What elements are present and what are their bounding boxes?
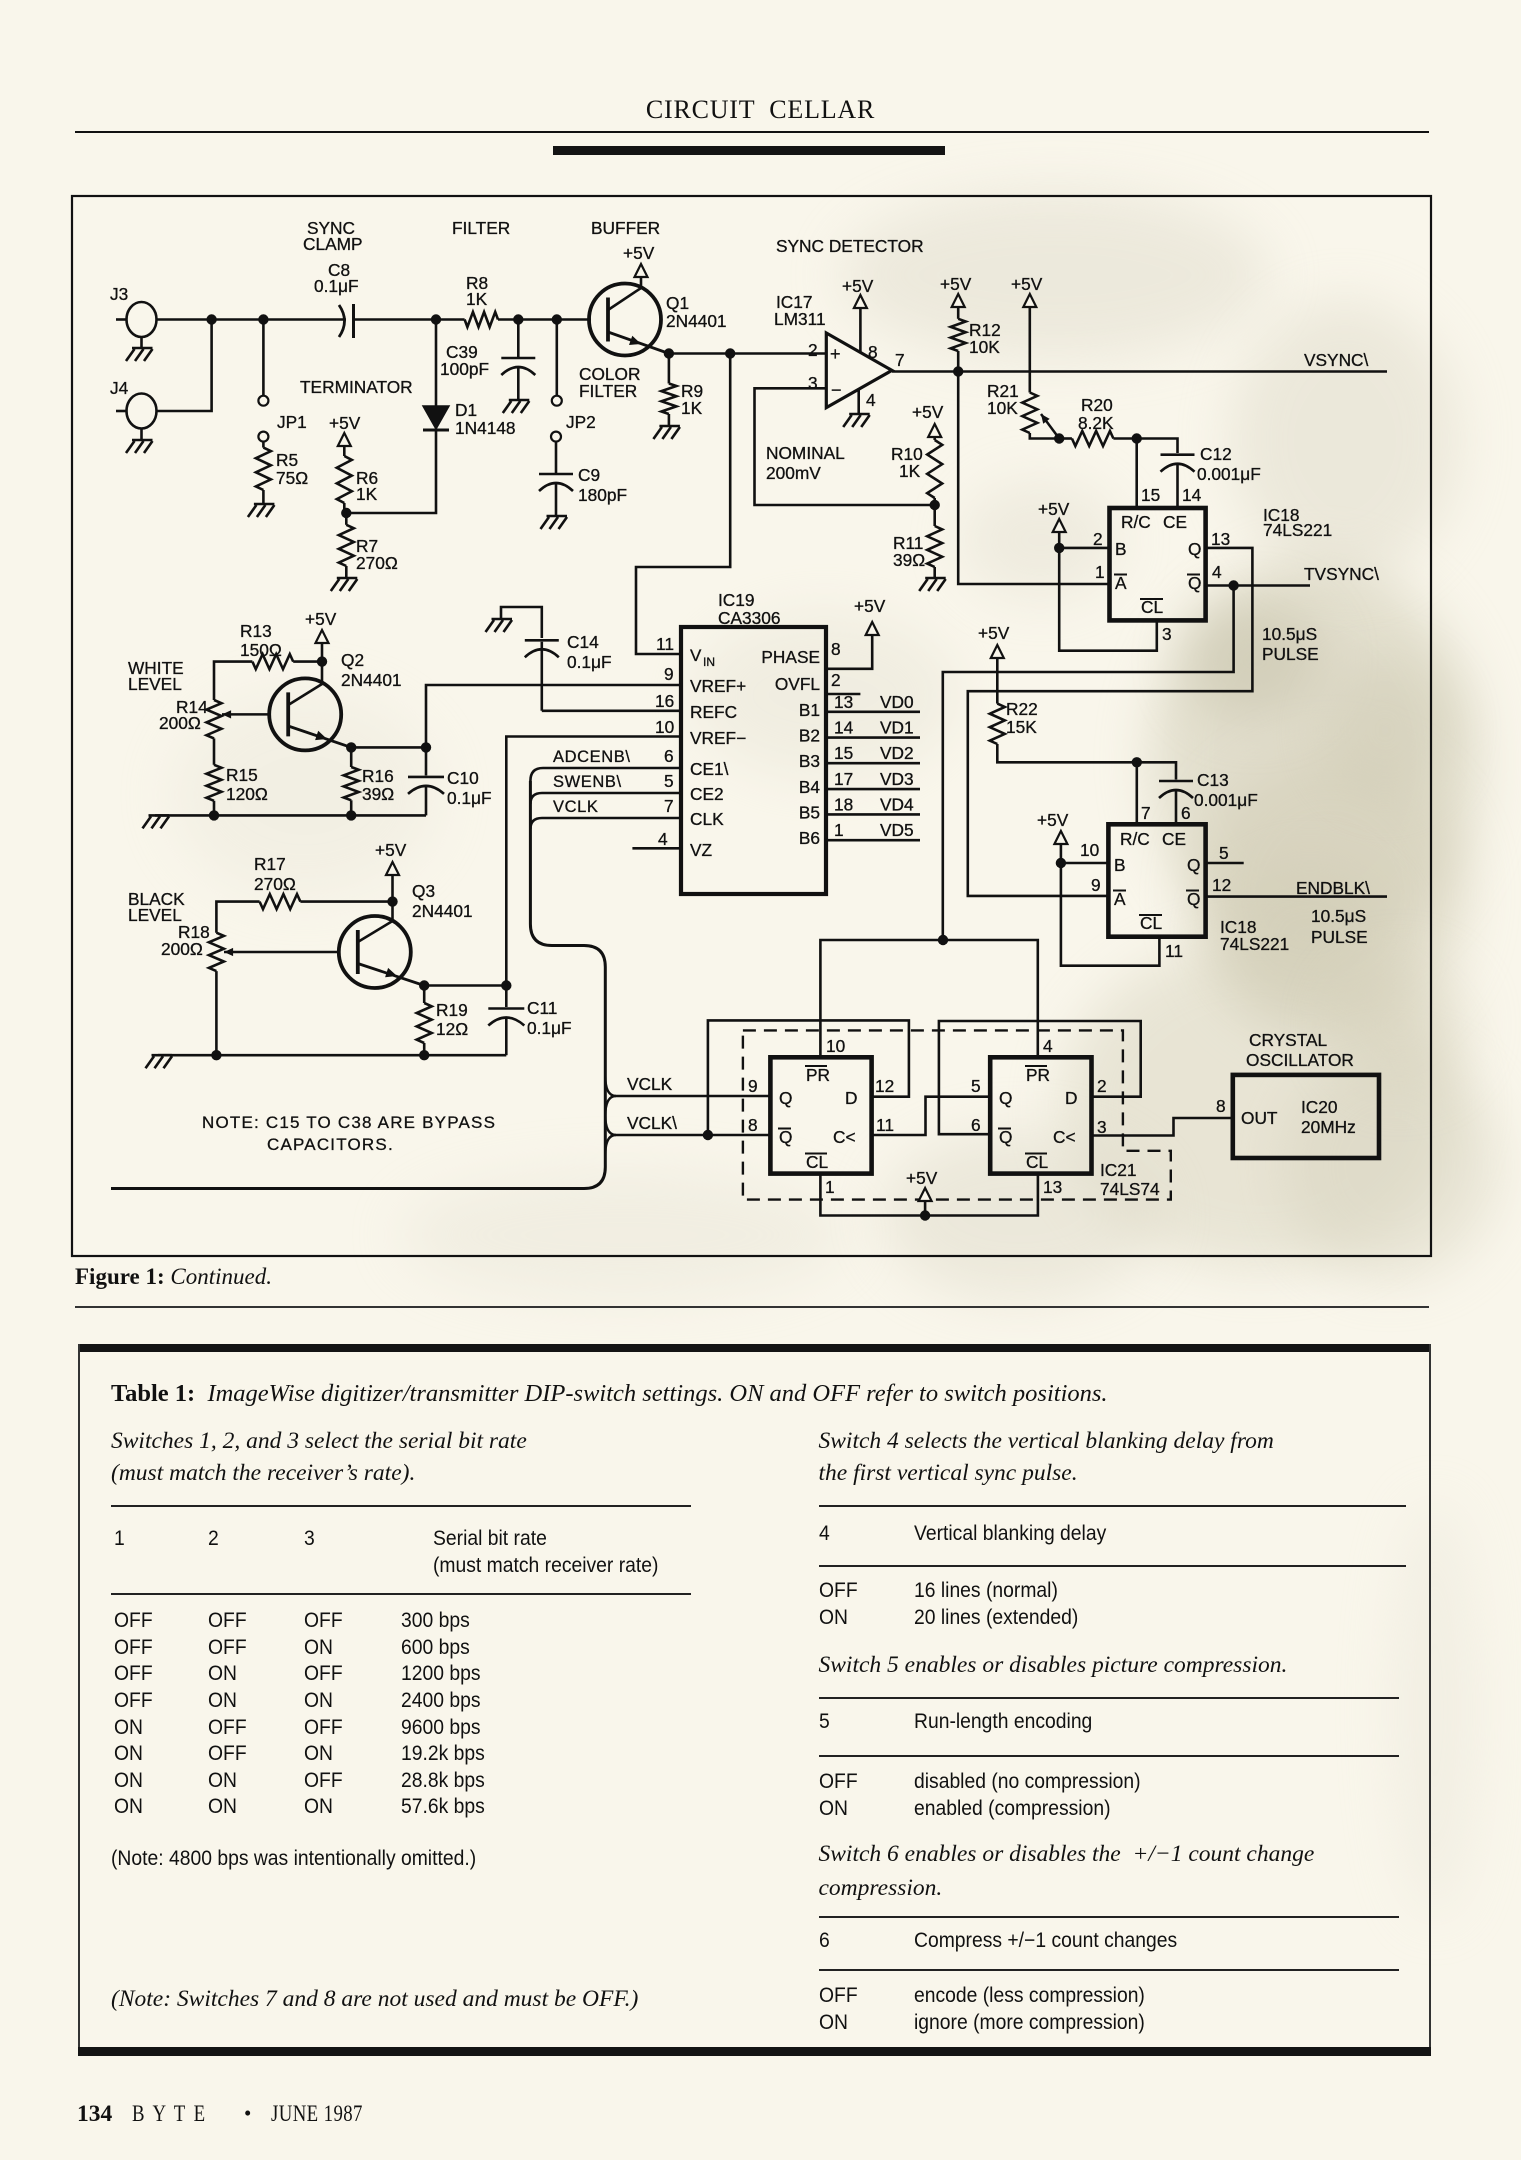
flip-flop IC21a xyxy=(770,1057,871,1173)
svg-text:7: 7 xyxy=(664,796,674,816)
wire R8 to Q1 base xyxy=(498,318,591,321)
svg-text:R/C: R/C xyxy=(1120,829,1150,849)
svg-text:4: 4 xyxy=(658,829,668,849)
svg-text:+5V: +5V xyxy=(623,243,655,263)
potentiometer R18 xyxy=(209,933,224,971)
svg-text:J3: J3 xyxy=(110,284,128,304)
svg-text:10K: 10K xyxy=(969,337,1000,357)
wire VCLK-bar branch to flip-flop xyxy=(605,1115,770,1135)
capacitor C11 xyxy=(505,986,508,1008)
R14 wiper arrow to Q2 base xyxy=(222,713,269,716)
oscillator IC20 20MHz xyxy=(1233,1075,1379,1158)
svg-text:10: 10 xyxy=(1080,840,1099,860)
capacitor C12 xyxy=(1137,439,1178,454)
svg-text:VSYNC\: VSYNC\ xyxy=(1304,350,1369,370)
svg-text:13: 13 xyxy=(834,692,853,712)
svg-text:FILTER: FILTER xyxy=(579,381,637,401)
svg-text:0.1μF: 0.1μF xyxy=(314,276,359,296)
svg-text:12: 12 xyxy=(1212,875,1231,895)
wire Q output pin 13 xyxy=(968,548,1253,896)
capacitor C9 xyxy=(555,441,558,473)
right heading 6 xyxy=(819,1841,1315,1868)
svg-text:LM311: LM311 xyxy=(774,309,826,329)
svg-text:CAPACITORS.: CAPACITORS. xyxy=(267,1135,394,1154)
svg-text:9: 9 xyxy=(1091,875,1101,895)
svg-text:+5V: +5V xyxy=(1038,499,1070,519)
page header: CIRCUIT CELLAR xyxy=(0,95,1521,125)
svg-text:1: 1 xyxy=(834,820,844,840)
wire FF1 clock from FF2 Q xyxy=(872,1097,991,1135)
svg-text:+5V: +5V xyxy=(854,596,886,616)
svg-text:1K: 1K xyxy=(356,484,378,504)
svg-text:1: 1 xyxy=(825,1177,835,1197)
svg-text:4: 4 xyxy=(1212,562,1222,582)
svg-text:C9: C9 xyxy=(578,465,600,485)
svg-text:200Ω: 200Ω xyxy=(159,713,201,733)
wire video input line xyxy=(157,318,347,321)
node R21 wiper junction xyxy=(1054,433,1064,443)
monostable IC18a 74LS221 xyxy=(1110,508,1206,620)
svg-text:ADCENB\: ADCENB\ xyxy=(553,748,631,766)
svg-text:B5: B5 xyxy=(799,802,820,822)
svg-text:7: 7 xyxy=(1141,803,1151,823)
svg-text:+5V: +5V xyxy=(305,609,337,629)
svg-text:JP2: JP2 xyxy=(566,412,596,432)
svg-text:Q3: Q3 xyxy=(412,881,435,901)
monostable IC18b 74LS221 xyxy=(1108,824,1205,936)
svg-text:Q: Q xyxy=(1187,855,1200,875)
svg-text:180pF: 180pF xyxy=(578,485,627,505)
schematic border frame xyxy=(72,196,1431,1256)
svg-text:VD0: VD0 xyxy=(880,692,914,712)
svg-text:2: 2 xyxy=(1093,529,1103,549)
left table rules xyxy=(111,1505,691,1507)
svg-text:PHASE: PHASE xyxy=(761,647,820,667)
node IC18a B junction xyxy=(1054,543,1064,553)
node C39 junction xyxy=(513,314,523,324)
svg-text:Q: Q xyxy=(999,1127,1012,1147)
svg-text:Q: Q xyxy=(779,1127,792,1147)
node R22-C13 junction xyxy=(1132,757,1142,767)
wire REFC pin 16 xyxy=(542,709,681,712)
svg-text:D1: D1 xyxy=(455,400,477,420)
svg-text:2N4401: 2N4401 xyxy=(666,311,727,331)
capacitor C39 xyxy=(517,320,520,358)
svg-text:CE1\: CE1\ xyxy=(690,759,729,779)
resistor R19 xyxy=(423,986,426,1004)
svg-text:C<: C< xyxy=(1053,1127,1076,1147)
svg-text:CLAMP: CLAMP xyxy=(303,234,363,254)
svg-text:6: 6 xyxy=(1181,803,1191,823)
svg-text:VCLK: VCLK xyxy=(627,1074,673,1094)
resistor R7 xyxy=(345,513,348,525)
left heading xyxy=(111,1428,527,1455)
svg-text:R19: R19 xyxy=(436,1000,468,1020)
capacitor C10 xyxy=(425,747,428,775)
wire VREF+ pin 9 from white level xyxy=(426,685,681,747)
wire FF2 clock from oscillator xyxy=(1092,1118,1233,1136)
wire FF2 D feedback from Qbar xyxy=(939,1021,1141,1134)
left notes xyxy=(111,1847,476,1871)
page footer xyxy=(77,2101,112,2128)
svg-text:−: − xyxy=(831,380,842,400)
svg-text:R5: R5 xyxy=(276,450,298,470)
svg-text:C14: C14 xyxy=(567,632,599,652)
svg-text:10.5μS: 10.5μS xyxy=(1262,624,1317,644)
svg-text:2: 2 xyxy=(831,670,841,690)
svg-text:8: 8 xyxy=(831,639,841,659)
wire data bit B1 pin 13 net VD0 xyxy=(826,710,920,713)
svg-text:15: 15 xyxy=(1141,485,1160,505)
node Q2 emitter junction xyxy=(346,742,356,752)
wire junction to pin 7 xyxy=(1136,762,1139,824)
resistor R15 xyxy=(213,738,216,764)
svg-text:+5V: +5V xyxy=(842,276,874,296)
R18 wiper arrow to Q3 base xyxy=(224,951,339,954)
wire VSYNC output xyxy=(892,370,1387,373)
left table header xyxy=(114,1527,125,1551)
svg-text:1K: 1K xyxy=(466,289,488,309)
node R10-R11 junction xyxy=(930,500,940,510)
svg-text:Q: Q xyxy=(1188,573,1201,593)
svg-text:+5V: +5V xyxy=(978,623,1010,643)
svg-text:0.1μF: 0.1μF xyxy=(447,788,492,808)
node Q2 collector junction xyxy=(317,656,327,666)
power +5V above Q1 xyxy=(635,264,648,277)
resistor R22 xyxy=(996,658,999,704)
svg-text:VCLK\: VCLK\ xyxy=(627,1113,677,1133)
svg-text:B6: B6 xyxy=(799,828,820,848)
svg-text:14: 14 xyxy=(834,718,854,738)
svg-text:3: 3 xyxy=(1162,624,1172,644)
svg-text:20MHz: 20MHz xyxy=(1301,1117,1356,1137)
svg-text:3: 3 xyxy=(1097,1117,1107,1137)
svg-text:IC19: IC19 xyxy=(718,590,755,610)
node VIN branch junction xyxy=(725,348,735,358)
wire PHASE pin 8 to +5V xyxy=(826,635,872,669)
svg-text:5: 5 xyxy=(971,1076,981,1096)
svg-text:SYNC DETECTOR: SYNC DETECTOR xyxy=(776,236,924,256)
svg-text:VREF−: VREF− xyxy=(690,728,746,748)
svg-text:Q: Q xyxy=(1187,889,1200,909)
svg-text:R16: R16 xyxy=(362,766,394,786)
capacitor C14 xyxy=(540,642,543,711)
potentiometer R21 xyxy=(1029,307,1032,393)
wire B input pin 10 xyxy=(1061,862,1109,865)
svg-text:100pF: 100pF xyxy=(440,359,489,379)
svg-text:0.1μF: 0.1μF xyxy=(567,652,612,672)
svg-text:+5V: +5V xyxy=(1037,810,1069,830)
wire emitter to comparator input xyxy=(669,352,826,355)
node JP1 junction xyxy=(258,314,268,324)
ground under R11 xyxy=(933,567,936,578)
svg-text:1K: 1K xyxy=(899,461,921,481)
svg-text:VD1: VD1 xyxy=(880,718,914,738)
ground under R5 xyxy=(262,490,265,504)
node Q1 emitter junction xyxy=(664,348,674,358)
svg-text:9: 9 xyxy=(748,1076,758,1096)
ground for C14 xyxy=(492,618,513,621)
wire Q output pin 5 stub xyxy=(1206,862,1244,865)
svg-text:8: 8 xyxy=(1216,1096,1226,1116)
wire data bit B5 pin 18 net VD4 xyxy=(826,813,920,816)
svg-text:+: + xyxy=(830,344,841,364)
svg-text:39Ω: 39Ω xyxy=(362,784,394,804)
svg-text:200mV: 200mV xyxy=(766,463,821,483)
wire VCLK branch to flip-flop xyxy=(605,1076,770,1096)
svg-text:CE2: CE2 xyxy=(690,784,724,804)
svg-text:10: 10 xyxy=(655,717,674,737)
svg-text:B: B xyxy=(1115,539,1127,559)
right heading 5 xyxy=(819,1652,1288,1679)
svg-text:REFC: REFC xyxy=(690,702,737,722)
svg-text:13: 13 xyxy=(1043,1177,1062,1197)
left table rows xyxy=(114,1609,153,1633)
wire R18 bottom to rail xyxy=(215,971,218,1055)
node C11 junction xyxy=(501,980,511,990)
svg-text:74LS221: 74LS221 xyxy=(1220,934,1289,954)
svg-text:15K: 15K xyxy=(1006,717,1037,737)
svg-text:OSCILLATOR: OSCILLATOR xyxy=(1246,1050,1354,1070)
svg-text:VD3: VD3 xyxy=(880,769,914,789)
svg-text:1: 1 xyxy=(1095,562,1105,582)
ground for white level xyxy=(149,814,170,817)
svg-text:17: 17 xyxy=(834,769,853,789)
svg-text:10K: 10K xyxy=(987,398,1018,418)
svg-text:2N4401: 2N4401 xyxy=(341,670,402,690)
flip-flop IC21b xyxy=(990,1057,1091,1173)
R21 wiper arrow xyxy=(1041,414,1059,439)
connector J3 xyxy=(127,302,157,337)
svg-text:C11: C11 xyxy=(527,998,557,1018)
svg-text:D: D xyxy=(845,1088,857,1108)
scan texture xyxy=(1150,560,1480,960)
svg-text:R15: R15 xyxy=(226,765,258,785)
svg-text:R/C: R/C xyxy=(1121,512,1151,532)
svg-text:CE: CE xyxy=(1163,512,1187,532)
svg-text:+5V: +5V xyxy=(375,840,407,860)
ground under R9 xyxy=(668,414,671,426)
svg-text:+5V: +5V xyxy=(906,1168,938,1188)
wire emitter node to C10 xyxy=(351,746,426,749)
table frame xyxy=(78,1344,1431,1352)
wire TVSYNC to PR rail xyxy=(943,586,1234,941)
node TVSYNC junction xyxy=(1228,580,1238,590)
diode D1 1N4148 xyxy=(435,320,438,407)
resistor R13 xyxy=(214,662,252,700)
svg-text:8: 8 xyxy=(868,342,878,362)
svg-text:9: 9 xyxy=(664,664,674,684)
svg-text:VD4: VD4 xyxy=(880,794,914,814)
svg-text:Q1: Q1 xyxy=(666,293,689,313)
svg-text:FILTER: FILTER xyxy=(452,218,510,238)
wire A input pin 1 from comparator xyxy=(958,372,1109,585)
wire ADCENB to CE1 pin 6 xyxy=(530,768,681,781)
svg-text:74LS74: 74LS74 xyxy=(1100,1179,1160,1199)
svg-text:120Ω: 120Ω xyxy=(226,784,268,804)
svg-text:R13: R13 xyxy=(240,621,272,641)
wire VZ stub pin 4 xyxy=(632,847,681,850)
svg-text:ENDBLK\: ENDBLK\ xyxy=(1296,878,1370,898)
svg-text:0.1μF: 0.1μF xyxy=(527,1018,572,1038)
svg-text:VREF+: VREF+ xyxy=(690,676,746,696)
svg-text:D: D xyxy=(1065,1088,1077,1108)
svg-text:VCLK: VCLK xyxy=(553,798,599,816)
svg-text:Q: Q xyxy=(779,1088,792,1108)
svg-text:11: 11 xyxy=(876,1115,894,1135)
resistor R6 xyxy=(343,446,346,456)
svg-text:BUFFER: BUFFER xyxy=(591,218,660,238)
svg-text:5: 5 xyxy=(1219,843,1229,863)
svg-text:200Ω: 200Ω xyxy=(161,939,203,959)
svg-text:6: 6 xyxy=(664,746,674,766)
right heading xyxy=(819,1428,1274,1455)
svg-text:PULSE: PULSE xyxy=(1311,927,1368,947)
svg-text:10: 10 xyxy=(826,1036,845,1056)
svg-text:270Ω: 270Ω xyxy=(254,874,296,894)
svg-text:V: V xyxy=(690,646,702,665)
svg-text:R17: R17 xyxy=(254,854,286,874)
svg-text:4: 4 xyxy=(866,390,876,410)
wire CL pin 3 tie to +5V xyxy=(1059,548,1157,651)
node CL rail +5V junction xyxy=(920,1210,930,1220)
svg-text:4: 4 xyxy=(1043,1036,1053,1056)
resistor R9 xyxy=(668,354,671,384)
ground under J3 xyxy=(140,337,143,348)
svg-text:13: 13 xyxy=(1211,529,1230,549)
resistor R11 xyxy=(933,505,936,526)
svg-text:OVFL: OVFL xyxy=(775,674,821,694)
node JP2 junction xyxy=(552,314,562,324)
wire Q-bar pin 12 ENDBLK xyxy=(1206,895,1387,898)
svg-text:C12: C12 xyxy=(1200,444,1232,464)
resistor R16 xyxy=(350,747,353,767)
svg-text:TVSYNC\: TVSYNC\ xyxy=(1304,564,1379,584)
svg-text:2: 2 xyxy=(1097,1076,1107,1096)
svg-text:VD2: VD2 xyxy=(880,743,914,763)
ground for black level xyxy=(152,1054,173,1057)
svg-text:R20: R20 xyxy=(1081,395,1113,415)
svg-text:C10: C10 xyxy=(447,768,479,788)
svg-text:VD5: VD5 xyxy=(880,820,914,840)
svg-text:JP1: JP1 xyxy=(277,412,307,432)
svg-text:C13: C13 xyxy=(1197,770,1229,790)
Q1 emitter xyxy=(608,332,669,354)
svg-text:PR: PR xyxy=(1026,1065,1050,1085)
svg-text:0.001μF: 0.001μF xyxy=(1194,790,1258,810)
node R20-C12 junction xyxy=(1132,433,1142,443)
wire VCLK to CLK pin 7 xyxy=(530,818,681,829)
svg-text:A: A xyxy=(1114,889,1126,909)
signal bundle trunk xyxy=(111,781,605,1189)
svg-text:8: 8 xyxy=(748,1115,758,1135)
svg-text:6: 6 xyxy=(971,1115,981,1135)
svg-text:CL: CL xyxy=(1026,1152,1048,1172)
svg-text:CL: CL xyxy=(806,1152,828,1172)
transistor Q2 2N4401 xyxy=(269,678,341,750)
svg-text:NOTE: C15 TO C38 ARE BYPASS: NOTE: C15 TO C38 ARE BYPASS xyxy=(202,1113,496,1132)
resistor R12 xyxy=(957,351,960,372)
potentiometer R14 xyxy=(207,700,222,738)
figure caption xyxy=(75,1264,272,1290)
svg-text:TERMINATOR: TERMINATOR xyxy=(300,377,413,397)
resistor R8 xyxy=(465,312,498,327)
svg-text:LEVEL: LEVEL xyxy=(128,674,182,694)
pin 4 ground xyxy=(857,390,860,414)
wire J4 to input node xyxy=(157,320,212,412)
svg-text:NOMINAL: NOMINAL xyxy=(766,443,845,463)
pin 8 +5V xyxy=(859,308,862,352)
ground under C39 xyxy=(509,399,530,402)
svg-text:16: 16 xyxy=(655,691,674,711)
svg-text:PR: PR xyxy=(806,1065,830,1085)
transistor Q1 2N4401 xyxy=(589,284,661,356)
svg-text:+5V: +5V xyxy=(1011,274,1043,294)
svg-text:1N4148: 1N4148 xyxy=(455,418,516,438)
wire data bit B3 pin 15 net VD2 xyxy=(826,762,920,765)
wire R20 junction to pin 15 xyxy=(1135,439,1138,507)
node D1 junction xyxy=(431,314,441,324)
power +5V above R21 xyxy=(1023,294,1036,307)
jumper JP2 xyxy=(555,320,558,397)
wire OVFL pin 2 stub xyxy=(826,693,860,696)
node R6-R7 junction xyxy=(343,503,346,513)
white level ground rail xyxy=(155,814,426,817)
svg-text:2: 2 xyxy=(808,340,818,360)
svg-text:10.5μS: 10.5μS xyxy=(1311,906,1366,926)
node Q3 emitter junction xyxy=(419,980,429,990)
svg-text:B3: B3 xyxy=(799,751,820,771)
svg-text:39Ω: 39Ω xyxy=(893,550,925,570)
svg-text:8.2K: 8.2K xyxy=(1078,413,1114,433)
wire C8 to R8 xyxy=(354,318,465,321)
svg-text:A: A xyxy=(1115,573,1127,593)
svg-text:270Ω: 270Ω xyxy=(356,553,398,573)
connector J4 xyxy=(127,394,157,429)
black level ground rail xyxy=(158,1054,506,1057)
svg-text:150Ω: 150Ω xyxy=(240,640,282,660)
svg-text:+5V: +5V xyxy=(329,413,361,433)
svg-text:74LS221: 74LS221 xyxy=(1263,520,1332,540)
wire B input pin 2 xyxy=(1059,547,1109,550)
svg-text:11: 11 xyxy=(1165,941,1183,961)
ground under C9 xyxy=(547,515,568,518)
svg-text:C<: C< xyxy=(833,1127,856,1147)
power +5V above R12 xyxy=(952,294,965,307)
svg-text:12: 12 xyxy=(875,1076,894,1096)
svg-text:B1: B1 xyxy=(799,700,820,720)
svg-text:3: 3 xyxy=(808,373,818,393)
wire data bit B2 pin 14 net VD1 xyxy=(826,736,920,739)
svg-text:B: B xyxy=(1114,855,1126,875)
svg-text:CLK: CLK xyxy=(690,809,724,829)
svg-text:2N4401: 2N4401 xyxy=(412,901,473,921)
svg-text:15: 15 xyxy=(834,743,853,763)
wire CL pin 11 tie xyxy=(1061,863,1160,966)
svg-text:7: 7 xyxy=(895,350,905,370)
svg-text:R22: R22 xyxy=(1006,699,1038,719)
right table 4 xyxy=(819,1505,1406,1507)
wire CL clear rail +5V xyxy=(820,1174,1038,1216)
resistor R20 xyxy=(1059,437,1072,440)
wire VREF- pin 10 from black level xyxy=(506,737,681,986)
node C10 junction xyxy=(421,742,431,752)
wire D1 to R6-R7 junction xyxy=(346,430,436,513)
wire FF1 D feedback loop xyxy=(708,1020,909,1135)
node VSYNC junction xyxy=(953,366,963,376)
wire SWENB to CE2 pin 5 xyxy=(530,793,681,804)
resistor R10 xyxy=(933,437,936,440)
